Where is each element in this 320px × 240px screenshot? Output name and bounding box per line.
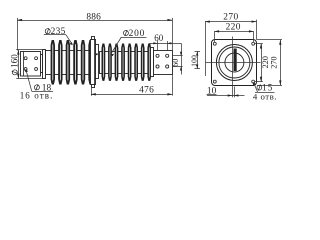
insulator core, left section [46, 51, 92, 75]
right terminal pad [154, 51, 173, 75]
svg-text:886: 886 [86, 12, 101, 22]
shed outline circle inner [219, 47, 250, 78]
shed rib R6 (d200 section) [135, 44, 137, 80]
svg-text:60: 60 [154, 33, 164, 43]
vertical centerline of flange view [232, 37, 234, 98]
label d235 [45, 29, 50, 34]
shed rib L1 (d235 section) [52, 41, 55, 84]
left pad bolt hole 3 (d18) [24, 68, 27, 71]
dimension 60 terminal pad hole spacing (vertical) [172, 43, 182, 74]
leader d18 16 holes [25, 69, 53, 92]
dimension 220 bolt spacing vertical [255, 44, 263, 82]
shed rib L2 (d235 section) [59, 41, 62, 84]
mounting flange top boss [92, 37, 95, 40]
flange corner bolt hole 1 (d15) [213, 42, 216, 45]
dimension 270 flange width [205, 20, 257, 76]
dimension 100 terminal height [195, 51, 201, 68]
dimension 10 blade offset [207, 87, 245, 98]
dimension 476 right section length [91, 75, 173, 96]
svg-text:60: 60 [171, 59, 180, 67]
leader d200 [111, 37, 147, 56]
insulator core, right section [100, 52, 152, 74]
flange corner bolt hole 3 (d15) [213, 80, 216, 83]
shed rib R3 (d200 section) [115, 44, 117, 80]
label 220 (rotated) [261, 56, 270, 68]
dimension 270 flange height [257, 40, 282, 86]
horizontal centerline of flange view [206, 62, 261, 64]
leader d235 [44, 35, 73, 46]
shed rib L5 (d235 section) [82, 41, 85, 84]
mounting flange body [91, 40, 96, 85]
side view: horizontal axis centerline [45, 62, 156, 64]
shed rib R5 (d200 section) [129, 44, 131, 80]
left pad bolt hole 2 (d18) [35, 57, 38, 60]
svg-text:220: 220 [226, 23, 241, 33]
svg-text:270: 270 [223, 12, 238, 22]
svg-text:4 отв.: 4 отв. [253, 92, 277, 102]
right end cap disc [151, 48, 154, 77]
dimension d160 left cap [16, 50, 43, 79]
svg-text:200: 200 [129, 29, 145, 39]
right pad bolt hole 3 [156, 65, 159, 68]
shed rib L4 (d235 section) [74, 41, 77, 84]
shed rib L3 (d235 section) [67, 41, 70, 84]
label d200 [123, 31, 128, 36]
leader d15 4 holes [253, 82, 275, 93]
svg-text:160: 160 [10, 54, 20, 68]
right pad bolt hole 4 [166, 65, 169, 68]
shed rib L6 (d235 section) [89, 41, 92, 84]
label 100 (rotated) [190, 55, 199, 67]
label d15 [257, 85, 262, 90]
shed rib R4 (d200 section) [122, 44, 124, 80]
right pad bolt hole 2 [166, 54, 169, 57]
flange plate square [212, 40, 257, 86]
label 270 (rotated) [269, 56, 278, 68]
left pad bolt hole 1 (d18) [24, 57, 27, 60]
svg-text:10: 10 [207, 86, 217, 96]
shed rib R1 (d200 section) [102, 44, 104, 80]
shed rib R2 (d200 section) [109, 44, 111, 80]
flange bolt mark [96, 53, 98, 55]
label 60 (rotated) [171, 59, 180, 67]
flange clamp plate [96, 45, 99, 79]
shed rib R8 (d200 section) [148, 44, 150, 80]
svg-text:100: 100 [190, 55, 199, 67]
terminal blade (end-on) [234, 49, 237, 72]
right pad bolt hole 1 [156, 54, 159, 57]
dimension 886 overall length [17, 18, 172, 51]
core circle [225, 53, 244, 72]
left terminal pad [21, 52, 41, 77]
flange corner bolt hole 4 (d15) [252, 80, 255, 83]
svg-text:16 отв.: 16 отв. [20, 90, 54, 100]
left neck [41, 55, 43, 73]
dimension 220 bolt spacing horizontal [214, 30, 253, 42]
shed rib R7 (d200 section) [142, 44, 144, 80]
flange corner bolt hole 2 (d15) [252, 42, 255, 45]
left pad bolt hole 4 (d18) [35, 68, 38, 71]
svg-text:270: 270 [269, 56, 278, 68]
label d18 [34, 85, 39, 90]
mounting flange bottom boss [92, 85, 95, 88]
dimension 60 terminal pad width [149, 41, 181, 51]
svg-text:476: 476 [139, 86, 154, 96]
left end cap disc (d160) [43, 50, 46, 79]
svg-text:235: 235 [51, 27, 66, 37]
shed outline circle d200 [216, 45, 252, 81]
label d160 (rotated) [10, 54, 20, 75]
